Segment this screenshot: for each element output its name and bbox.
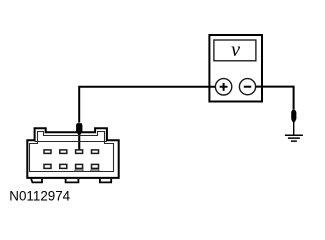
pin 5 bottom row	[44, 164, 51, 168]
connector foot 2	[66, 179, 79, 183]
keyway under pin 8	[91, 170, 99, 172]
connector inner contour	[30, 132, 114, 172]
voltmeter display window	[214, 40, 256, 61]
pin 8 bottom row	[92, 164, 99, 168]
keyway under pin 7	[75, 170, 83, 172]
connector rail lower line	[35, 141, 107, 143]
pin 2 top row	[60, 150, 67, 154]
voltmeter positive terminal	[215, 79, 231, 95]
pin 1 top row	[44, 150, 51, 154]
connector foot 3	[100, 179, 111, 183]
pin 4 top row	[92, 150, 99, 154]
pin 6 bottom row	[60, 164, 67, 168]
wire probe to ground symbol	[293, 121, 294, 135]
ground probe tip	[291, 110, 296, 122]
ground symbol	[285, 135, 303, 141]
probe needle into pin	[78, 134, 80, 150]
wire from negative terminal to ground	[256, 87, 294, 110]
svg-text:N0112974: N0112974	[9, 188, 70, 203]
voltmeter U1 outer box	[209, 35, 262, 102]
wire from positive terminal to probe	[79, 87, 215, 123]
connector foot 1	[31, 179, 42, 183]
connector C1 outer body	[27, 128, 118, 178]
voltmeter negative terminal	[239, 79, 255, 95]
pin 3 top row	[76, 150, 83, 154]
pin 7 bottom row	[76, 164, 83, 168]
svg-text:ν: ν	[231, 39, 240, 61]
test probe at connector	[76, 123, 82, 135]
